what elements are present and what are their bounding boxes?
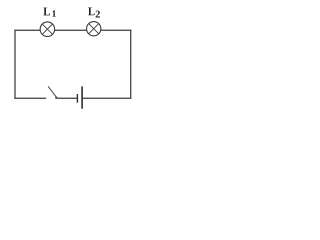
label L2 subscript 2 [96, 11, 100, 18]
lamp L2 circle [87, 22, 101, 36]
battery long plate (positive) [81, 86, 83, 108]
switch pivot dot [55, 97, 57, 99]
wire: battery to bottom-right corner [83, 97, 132, 99]
switch blade [48, 86, 56, 97]
wire: segment between lamp L1 and lamp L2 [55, 29, 87, 31]
battery short plate (negative) [76, 94, 78, 103]
wire: lamp L2 to top-right corner [101, 29, 131, 31]
lamp L1 cross [42, 24, 52, 34]
wire: switch pivot to battery [57, 97, 77, 99]
lamp L2 cross [89, 24, 99, 34]
wire: right side [130, 30, 132, 99]
label L2 letter L [88, 7, 95, 15]
lamp L1 circle [40, 22, 55, 37]
wire: bottom-left to switch [14, 97, 46, 99]
label L1 subscript 1 [52, 10, 55, 16]
wire: left side [14, 30, 16, 99]
wire: top-left segment to lamp L1 [14, 29, 40, 31]
label L1 letter L [43, 8, 50, 16]
